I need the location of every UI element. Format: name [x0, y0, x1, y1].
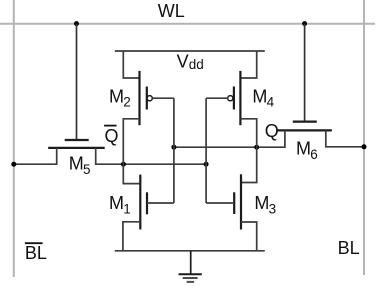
transistor M6 (right access NMOS) gate bar — [293, 120, 317, 122]
wire M6 left leg to Q (wire1) — [174, 130, 285, 147]
wire ground rail — [115, 250, 265, 252]
wire M5 drain leg to Qbar (wire2) — [96, 148, 206, 164]
svg-text:M: M — [254, 193, 269, 213]
transistor M4 PMOS bubble — [228, 96, 233, 101]
svg-text:M: M — [109, 193, 124, 213]
label M2 — [109, 87, 131, 110]
wire M2 gate to coupling line — [153, 97, 174, 99]
node: M1/M2 gate junction on wire1 — [171, 145, 176, 150]
node: M6 to BL junction — [362, 144, 367, 149]
svg-text:3: 3 — [269, 201, 277, 216]
label M3 — [254, 193, 276, 217]
transistor M1 (left NMOS) channel bar — [139, 175, 141, 230]
wire M5 source leg to BLbar — [14, 148, 57, 164]
transistor M6 channel bar — [277, 129, 332, 131]
svg-text:M: M — [69, 153, 84, 173]
wire Vdd rail — [115, 50, 265, 52]
wire M4 drain to Q node — [240, 119, 256, 183]
svg-text:WL: WL — [158, 1, 185, 21]
wire WL to M5 gate — [76, 24, 78, 140]
label M4 — [252, 87, 274, 110]
svg-text:dd: dd — [189, 57, 204, 72]
svg-text:2: 2 — [123, 95, 131, 110]
wire coupling vertical Qbar to M3/M4 gates — [205, 98, 207, 203]
wire M2 source to Vdd — [123, 51, 139, 78]
wire M4 source to Vdd — [240, 51, 256, 78]
node: Q junction on wire1 — [254, 145, 259, 150]
transistor M3 (right NMOS) channel bar — [240, 174, 242, 229]
transistor M1 gate bar — [146, 192, 148, 214]
ground symbol — [179, 251, 202, 282]
wire M3 gate to coupling line — [206, 202, 234, 204]
node: M3/M4 gate junction on wire2 — [204, 162, 209, 167]
svg-text:Q: Q — [105, 126, 119, 146]
wire M1 source to ground rail — [123, 222, 140, 251]
label M6 — [296, 138, 318, 162]
svg-text:1: 1 — [123, 201, 131, 216]
svg-text:M: M — [109, 87, 124, 107]
word line WL (bus wire) — [0, 23, 375, 25]
wire WL to M6 gate — [304, 24, 306, 122]
label M5 — [69, 153, 91, 177]
transistor M2 (left PMOS) channel bar — [138, 71, 140, 125]
transistor M2 gate bar — [146, 87, 148, 110]
wire M1 gate to coupling line — [147, 202, 174, 204]
node: Qbar junction on wire2 — [121, 162, 126, 167]
node: WL to M6 gate junction — [302, 21, 307, 26]
label Vdd — [177, 51, 204, 72]
svg-text:V: V — [177, 51, 189, 71]
transistor M5 (left access NMOS) gate bar — [65, 139, 89, 141]
bit line BLbar (left bus wire) — [13, 0, 15, 277]
svg-text:5: 5 — [83, 162, 91, 177]
wire coupling vertical Q to M1/M2 gates — [173, 98, 175, 203]
wire M2 drain to Qbar node — [123, 119, 140, 184]
transistor M3 gate bar — [233, 192, 235, 214]
transistor M4 (right PMOS) channel bar — [239, 71, 241, 125]
label BLbar — [25, 243, 47, 263]
svg-text:BL: BL — [338, 238, 360, 258]
wire M6 right leg to BL — [326, 130, 364, 146]
node: M5 source to BLbar junction — [11, 162, 16, 167]
svg-text:4: 4 — [267, 95, 275, 110]
node: WL to M5 gate junction — [74, 21, 79, 26]
transistor M2 PMOS bubble — [147, 96, 152, 101]
label Qbar — [104, 126, 118, 146]
svg-text:M: M — [252, 87, 267, 107]
svg-text:BL: BL — [25, 243, 47, 263]
wire M3 source to ground rail — [241, 222, 257, 251]
svg-text:M: M — [296, 138, 311, 158]
svg-text:6: 6 — [310, 147, 318, 162]
wire M4 gate to coupling line — [206, 97, 228, 99]
label M1 — [109, 193, 131, 217]
transistor M5 channel bar — [48, 147, 104, 149]
transistor M4 gate bar — [233, 87, 235, 110]
svg-text:Q: Q — [265, 121, 279, 141]
bit line BL (right bus wire) — [363, 0, 365, 275]
